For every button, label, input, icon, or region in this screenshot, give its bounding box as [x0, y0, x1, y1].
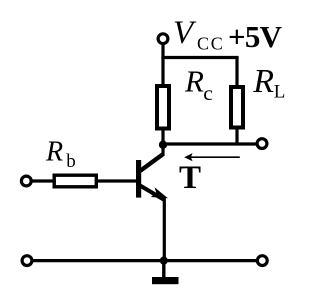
svg-text:c: c: [203, 81, 213, 105]
svg-text:CC: CC: [197, 33, 225, 53]
svg-text:T: T: [179, 160, 201, 196]
svg-text:R: R: [184, 64, 204, 99]
svg-text:L: L: [274, 82, 286, 103]
svg-text:R: R: [45, 137, 63, 168]
svg-text:b: b: [66, 151, 76, 172]
svg-text:+5V: +5V: [228, 19, 283, 54]
svg-text:R: R: [252, 63, 274, 100]
